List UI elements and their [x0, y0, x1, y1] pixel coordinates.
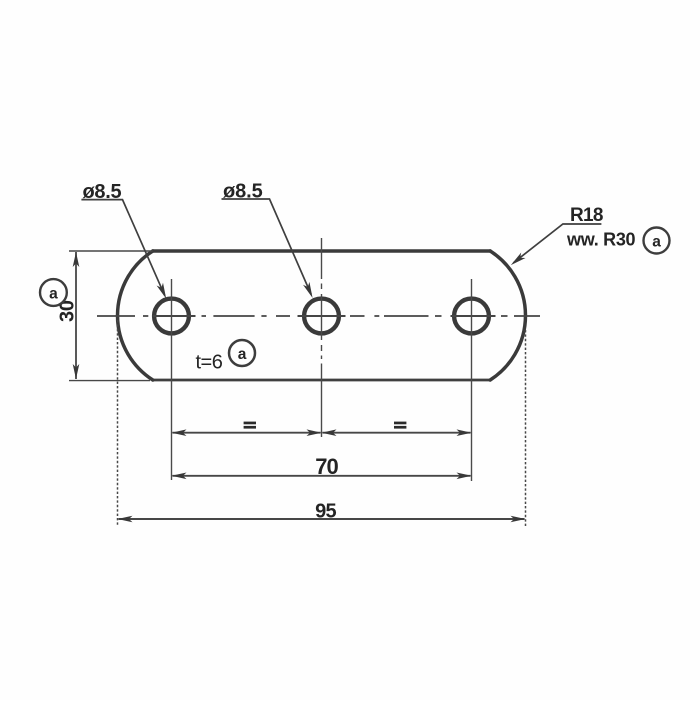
hole H1 vertical centreline / extension line [171, 279, 173, 480]
hole H3 vertical centreline / extension line [471, 279, 473, 481]
hole H3 centre cross tick [451, 315, 496, 317]
thickness circled a [229, 340, 255, 366]
hole diameter label 1 leader [81, 200, 166, 299]
svg-text:a: a [49, 286, 58, 303]
dimension 30 extension line top [69, 250, 153, 252]
hole H2 circle [304, 299, 339, 334]
equal mark left [244, 422, 256, 429]
plate outline bottom edge [153, 379, 490, 382]
hole diameter label 2 leader [222, 199, 313, 298]
equal spacing dimension line right segment [322, 429, 472, 436]
svg-text:t=6: t=6 [196, 352, 223, 374]
dimension 30 line with arrows [73, 252, 80, 379]
equal spacing dimension line left segment [172, 429, 322, 436]
hole H1 centre cross tick [153, 315, 196, 317]
radius label R18 leader [511, 224, 602, 265]
plate outline top edge [153, 249, 490, 252]
surface mark circled a right [644, 228, 670, 254]
svg-text:a: a [238, 346, 247, 363]
svg-text:70: 70 [315, 454, 338, 479]
plate outline right end arc R18 [490, 251, 525, 380]
surface mark circled a left [40, 279, 67, 306]
plate outline left end arc R18 [118, 251, 153, 380]
extension line right tip of plate (dotted) [525, 330, 527, 526]
svg-text:a: a [652, 234, 661, 251]
hole H1 circle [154, 299, 189, 334]
dimension 95 line with arrows [118, 516, 526, 523]
hole H3 circle [454, 299, 489, 334]
svg-text:R18: R18 [570, 205, 603, 226]
dimension 70 line with arrows [172, 473, 472, 480]
svg-text:95: 95 [315, 500, 336, 522]
horizontal centreline dash-dot [97, 315, 540, 317]
svg-text:ww. R30: ww. R30 [566, 230, 636, 250]
dimension 30 extension line bottom [69, 380, 150, 382]
hole H2 vertical centreline dash-dot [321, 238, 323, 437]
hole H2 centre cross tick [298, 315, 346, 317]
extension line left tip of plate (dotted) [117, 320, 119, 526]
equal mark right [394, 422, 406, 429]
